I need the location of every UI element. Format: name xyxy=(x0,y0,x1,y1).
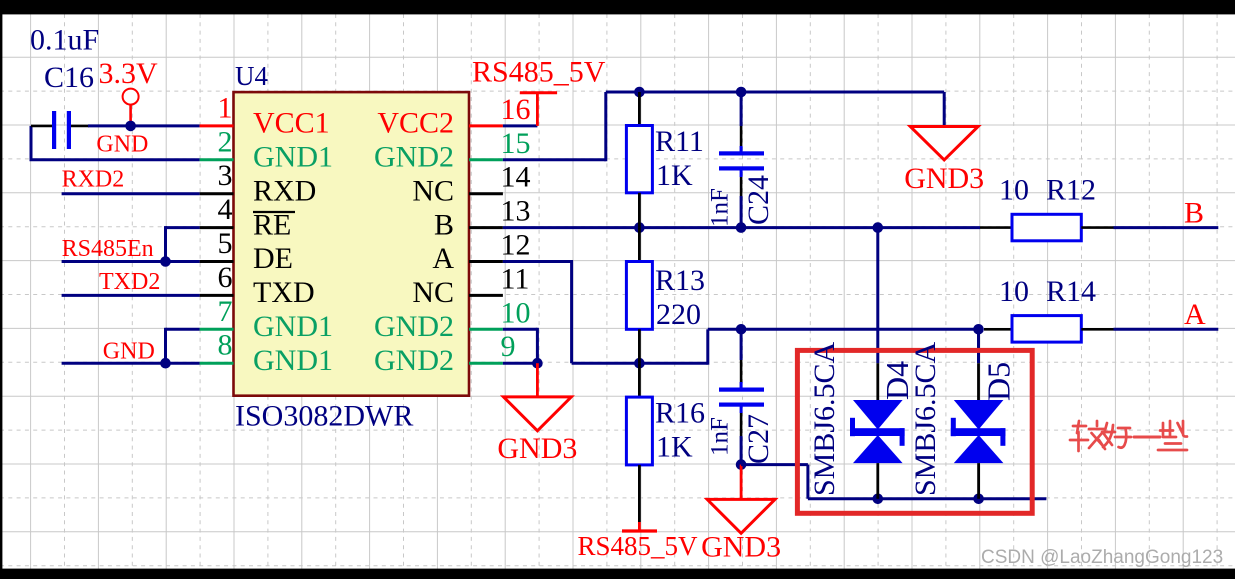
svg-text:15: 15 xyxy=(501,127,531,160)
svg-text:NC: NC xyxy=(412,276,454,309)
svg-text:GND2: GND2 xyxy=(374,141,454,174)
svg-text:9: 9 xyxy=(501,330,516,363)
svg-text:10: 10 xyxy=(501,296,531,329)
svg-text:16: 16 xyxy=(501,93,531,126)
svg-text:R11: R11 xyxy=(655,125,704,158)
svg-text:GND3: GND3 xyxy=(701,531,781,564)
svg-text:C24: C24 xyxy=(742,175,775,225)
svg-text:GND2: GND2 xyxy=(374,310,454,343)
svg-text:RS485_5V: RS485_5V xyxy=(472,56,606,89)
svg-text:GND1: GND1 xyxy=(253,344,333,377)
svg-text:5: 5 xyxy=(218,227,233,260)
svg-text:NC: NC xyxy=(412,174,454,207)
svg-text:220: 220 xyxy=(656,298,701,331)
svg-text:ISO3082DWR: ISO3082DWR xyxy=(235,400,413,433)
svg-text:RXD: RXD xyxy=(253,174,316,207)
svg-text:12: 12 xyxy=(501,229,531,262)
svg-text:1nF: 1nF xyxy=(707,417,734,456)
svg-text:11: 11 xyxy=(501,262,530,295)
svg-text:7: 7 xyxy=(218,295,233,328)
svg-text:D4: D4 xyxy=(879,361,915,400)
svg-text:TXD: TXD xyxy=(253,276,315,309)
svg-text:0.1uF: 0.1uF xyxy=(30,24,99,57)
svg-text:TXD2: TXD2 xyxy=(99,269,160,295)
svg-text:GND2: GND2 xyxy=(374,344,454,377)
svg-text:B: B xyxy=(1184,197,1204,230)
svg-text:10: 10 xyxy=(999,275,1029,308)
svg-text:6: 6 xyxy=(218,261,233,294)
svg-text:R14: R14 xyxy=(1046,275,1096,308)
svg-text:VCC1: VCC1 xyxy=(253,107,330,140)
svg-text:10: 10 xyxy=(999,174,1029,207)
svg-text:RE: RE xyxy=(253,208,291,241)
svg-text:VCC2: VCC2 xyxy=(377,107,454,140)
svg-text:CSDN @LaoZhangGong123: CSDN @LaoZhangGong123 xyxy=(981,547,1223,568)
svg-text:GND3: GND3 xyxy=(497,432,577,465)
svg-text:RXD2: RXD2 xyxy=(62,166,125,192)
svg-text:R12: R12 xyxy=(1046,174,1096,207)
svg-text:GND1: GND1 xyxy=(253,310,333,343)
svg-text:D5: D5 xyxy=(981,362,1017,401)
svg-text:3.3V: 3.3V xyxy=(99,57,159,90)
svg-text:SMBJ6.5CA: SMBJ6.5CA xyxy=(808,341,841,496)
svg-text:GND3: GND3 xyxy=(904,162,984,195)
svg-text:C27: C27 xyxy=(742,414,775,464)
svg-text:RS485En: RS485En xyxy=(62,236,154,262)
svg-text:14: 14 xyxy=(501,161,531,194)
svg-text:8: 8 xyxy=(218,329,233,362)
svg-text:B: B xyxy=(434,208,454,241)
svg-text:DE: DE xyxy=(253,242,293,275)
svg-text:1K: 1K xyxy=(656,431,693,464)
svg-text:GND: GND xyxy=(96,132,148,158)
svg-text:R16: R16 xyxy=(655,397,705,430)
svg-text:RS485_5V: RS485_5V xyxy=(577,531,698,561)
svg-text:3: 3 xyxy=(218,159,233,192)
svg-text:1nF: 1nF xyxy=(707,188,734,227)
svg-text:1K: 1K xyxy=(656,159,693,192)
svg-text:13: 13 xyxy=(501,195,531,228)
svg-text:GND1: GND1 xyxy=(253,141,333,174)
svg-text:1: 1 xyxy=(218,91,233,124)
svg-text:C16: C16 xyxy=(44,61,94,94)
svg-text:R13: R13 xyxy=(655,264,705,297)
svg-text:4: 4 xyxy=(218,193,233,226)
svg-text:A: A xyxy=(432,242,454,275)
svg-text:2: 2 xyxy=(218,125,233,158)
svg-text:U4: U4 xyxy=(235,61,268,91)
svg-text:A: A xyxy=(1184,298,1206,331)
svg-text:GND: GND xyxy=(103,339,155,365)
